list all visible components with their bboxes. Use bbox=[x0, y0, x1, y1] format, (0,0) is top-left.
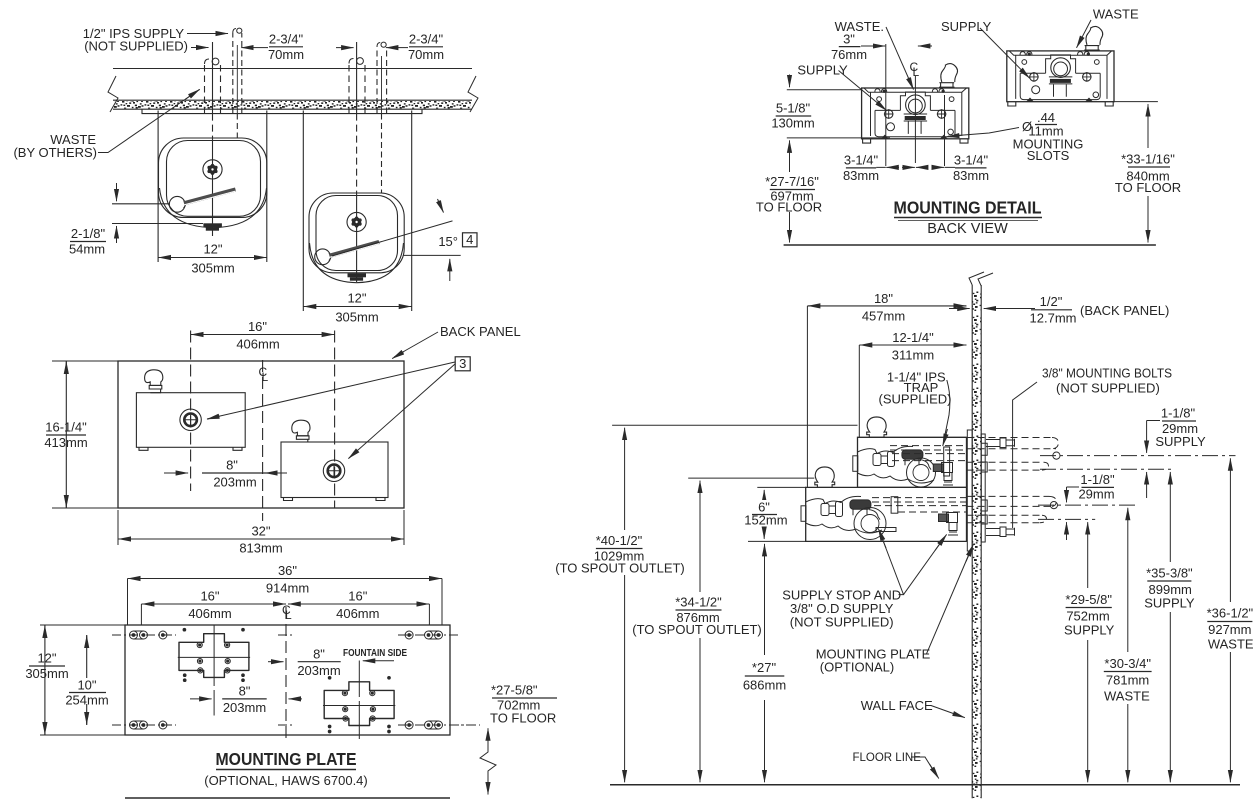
svg-text:1-1/8": 1-1/8" bbox=[1080, 472, 1115, 487]
svg-text:3": 3" bbox=[843, 32, 855, 47]
svg-text:(NOT SUPPLIED): (NOT SUPPLIED) bbox=[1056, 381, 1160, 396]
bolt slots row2 right bbox=[405, 721, 442, 729]
svg-text:*29-5/8": *29-5/8" bbox=[1065, 592, 1112, 607]
P2 vertical centerline bbox=[358, 661, 360, 740]
text 36-1/2 bbox=[1205, 604, 1254, 651]
bolt slots row1 left bbox=[130, 631, 167, 639]
dim 34-1/2 bbox=[699, 481, 701, 493]
upper unit interior bbox=[853, 446, 966, 487]
top notches bbox=[875, 89, 944, 93]
sink1 outer bowl bbox=[159, 138, 267, 218]
F1 feet bbox=[139, 447, 242, 450]
supply stop bbox=[939, 514, 949, 522]
svg-text:16": 16" bbox=[348, 589, 367, 604]
svg-text:*35-3/8": *35-3/8" bbox=[1146, 566, 1193, 581]
svg-text:L: L bbox=[262, 370, 269, 384]
floor/base line bbox=[125, 797, 450, 799]
svg-text:FLOOR LINE: FLOOR LINE bbox=[853, 752, 922, 764]
F2 centerline dashed bbox=[334, 331, 336, 509]
svg-text:L: L bbox=[285, 608, 292, 622]
dim 27-7/16 line bbox=[789, 153, 791, 173]
sink1 bubbler arm bbox=[184, 190, 236, 204]
svg-text:WASTE.: WASTE. bbox=[835, 19, 884, 34]
mounting slot leader bbox=[948, 128, 1019, 137]
svg-text:781mm: 781mm bbox=[1106, 673, 1149, 688]
text 29-5/8 bbox=[1063, 590, 1115, 637]
sink2 horizontal ref line bbox=[404, 254, 461, 256]
plate centerline bbox=[285, 607, 287, 740]
WASTE U1 leader bbox=[886, 27, 914, 90]
small holes bbox=[877, 97, 882, 102]
dim 2-1/8 bbox=[112, 204, 203, 224]
P1 mid horizontal bbox=[178, 656, 250, 658]
dim 2-3/4 no2 arrows bbox=[336, 47, 354, 49]
P1 vertical centerline bbox=[213, 625, 215, 716]
svg-text:(TO SPOUT OUTLET): (TO SPOUT OUTLET) bbox=[555, 561, 685, 576]
svg-text:76mm: 76mm bbox=[831, 47, 867, 62]
svg-text:(TO SPOUT OUTLET): (TO SPOUT OUTLET) bbox=[632, 622, 762, 637]
upper waste pipe dashed bbox=[967, 438, 1059, 449]
trap stem bbox=[908, 122, 921, 134]
sink1 drain fitting bbox=[203, 223, 222, 227]
svg-text:305mm: 305mm bbox=[335, 310, 378, 325]
lower waste centerline bbox=[1038, 504, 1135, 506]
svg-text:SUPPLY: SUPPLY bbox=[1155, 434, 1206, 449]
svg-text:12.7mm: 12.7mm bbox=[1030, 311, 1077, 326]
svg-text:54mm: 54mm bbox=[69, 242, 105, 257]
sink1 12in dim bbox=[158, 257, 267, 259]
lower waste pipe dashed bbox=[967, 496, 1057, 506]
inner panel outline bbox=[875, 110, 955, 136]
svg-text:10": 10" bbox=[77, 678, 96, 693]
text 30-3/4 bbox=[1102, 654, 1154, 702]
BACK PANEL leader bbox=[394, 332, 438, 357]
svg-text:FOUNTAIN SIDE: FOUNTAIN SIDE bbox=[343, 647, 407, 659]
dim 8 right arrows bbox=[268, 661, 284, 663]
sink2 supply pipe (dashed) bbox=[377, 47, 387, 114]
sink2 supply line below counter (dashed) bbox=[381, 114, 383, 194]
dim 3in bbox=[861, 45, 873, 47]
text 35-3/8 bbox=[1145, 564, 1195, 610]
dim 3-1/4 arrows bbox=[876, 166, 955, 168]
svg-text:83mm: 83mm bbox=[953, 168, 989, 183]
fountain F1 body bbox=[136, 393, 245, 448]
F1 bubbler head bbox=[145, 370, 163, 386]
text 6in bbox=[745, 500, 786, 525]
svg-text:813mm: 813mm bbox=[239, 541, 282, 556]
supply stop leaders bbox=[879, 530, 904, 595]
label 1/2 IPS SUPPLY leader bbox=[187, 33, 228, 35]
dim 33-1/16 bbox=[1113, 101, 1158, 103]
WASTE U2 leader bbox=[1077, 20, 1092, 48]
upper waste centerline bbox=[1040, 455, 1236, 457]
svg-text:4: 4 bbox=[466, 232, 473, 247]
counter speckle fill bbox=[114, 101, 471, 109]
svg-text:3: 3 bbox=[459, 356, 466, 371]
svg-text:(BACK PANEL): (BACK PANEL) bbox=[1080, 303, 1169, 318]
F2 bubbler head bbox=[292, 420, 310, 436]
svg-text:311mm: 311mm bbox=[892, 348, 934, 363]
svg-text:203mm: 203mm bbox=[297, 663, 340, 678]
svg-text:752mm: 752mm bbox=[1066, 609, 1109, 624]
sink1 centerline bbox=[212, 42, 214, 114]
svg-text:TO FLOOR: TO FLOOR bbox=[756, 200, 822, 215]
dim 16-1/4 left bbox=[52, 361, 118, 508]
mounting plate bar bbox=[981, 434, 985, 542]
FOUNTAIN SIDE arrow bbox=[363, 660, 394, 662]
floor line detail bbox=[784, 244, 1156, 246]
counter right break bbox=[468, 76, 478, 112]
dim 27 bbox=[764, 544, 766, 560]
svg-text:2-1/8": 2-1/8" bbox=[71, 226, 106, 241]
svg-text:152mm: 152mm bbox=[744, 513, 787, 528]
svg-text:203mm: 203mm bbox=[223, 700, 266, 715]
trap circle bbox=[906, 95, 926, 115]
label WASTE leader bbox=[98, 90, 200, 153]
svg-text:3-1/4": 3-1/4" bbox=[844, 153, 879, 168]
svg-text:1/2": 1/2" bbox=[1040, 294, 1063, 309]
P1 bolt circles bbox=[197, 642, 230, 673]
unit U2 (raised) bbox=[1007, 26, 1114, 106]
upper spout ref line bbox=[612, 424, 857, 426]
F2 feet bbox=[284, 498, 386, 501]
svg-text:*27": *27" bbox=[752, 660, 777, 675]
floor line bbox=[610, 784, 1240, 786]
dim 6 bbox=[763, 490, 765, 500]
dim 18 bbox=[807, 306, 859, 487]
27-5/8 to floor line bbox=[450, 724, 480, 726]
dim 32 bottom bbox=[118, 510, 404, 545]
svg-text:413mm: 413mm bbox=[44, 435, 87, 450]
wall face leader bbox=[931, 706, 965, 718]
sink2 bubbler bbox=[315, 249, 331, 265]
mounting slots bbox=[881, 135, 889, 139]
svg-text:406mm: 406mm bbox=[336, 606, 379, 621]
counter top edge line bbox=[113, 68, 472, 70]
dim 36-1/2 bbox=[1229, 458, 1231, 490]
sink2 bubbler arm bbox=[329, 242, 379, 256]
wall speckle fill bbox=[973, 288, 982, 798]
dim 2-3/4 no1 arrows bbox=[241, 47, 257, 49]
svg-text:36": 36" bbox=[278, 563, 297, 578]
svg-text:(BY OTHERS): (BY OTHERS) bbox=[13, 145, 97, 160]
panel centerline dashed bbox=[262, 360, 264, 521]
svg-text:406mm: 406mm bbox=[236, 337, 279, 352]
svg-text:130mm: 130mm bbox=[771, 116, 814, 131]
F1 drain rosette bbox=[180, 409, 201, 430]
dim 1-1/8 upper bbox=[1147, 420, 1160, 422]
lower supply centerline bbox=[1038, 518, 1095, 520]
fountain F2 body bbox=[281, 442, 388, 498]
back panel bar bbox=[967, 430, 972, 551]
P1 plate hole dots bbox=[183, 628, 186, 631]
bolt slots row2 left bbox=[130, 721, 167, 729]
text 34-1/2 bbox=[640, 593, 754, 636]
box 3 bbox=[455, 357, 470, 371]
svg-text:MOUNTING DETAIL: MOUNTING DETAIL bbox=[894, 198, 1042, 218]
counter front edge band bbox=[113, 100, 472, 109]
mounting bolt lower bbox=[986, 527, 1015, 537]
interior hidden pipes bbox=[890, 446, 966, 461]
sink1 inner bowl bbox=[167, 141, 261, 217]
mounting plate leader bbox=[927, 546, 973, 654]
svg-text:TO FLOOR: TO FLOOR bbox=[490, 711, 556, 726]
P2 mid horizontal bbox=[323, 705, 395, 707]
svg-text:203mm: 203mm bbox=[213, 475, 256, 490]
dim 1/2 wall bbox=[949, 308, 970, 310]
svg-text:(OPTIONAL): (OPTIONAL) bbox=[820, 660, 894, 675]
trap flange dark bbox=[904, 113, 927, 115]
dim 12-1/4 bbox=[859, 344, 966, 346]
text 27 bbox=[742, 658, 787, 691]
anchor pattern P2 cross outline bbox=[324, 682, 394, 726]
P2 bolt circles bbox=[342, 691, 375, 722]
sink1 extension lines bbox=[158, 111, 267, 263]
feet bbox=[863, 139, 968, 143]
svg-text:*27-5/8": *27-5/8" bbox=[491, 683, 538, 698]
svg-text:927mm: 927mm bbox=[1208, 622, 1251, 637]
sink2 outer bowl bbox=[309, 193, 404, 273]
svg-text:15°: 15° bbox=[438, 234, 458, 249]
svg-text:3-1/4": 3-1/4" bbox=[954, 153, 989, 168]
svg-text:WASTE: WASTE bbox=[1208, 637, 1254, 652]
lower supply pipe dashed bbox=[967, 515, 1047, 523]
svg-text:12-1/4": 12-1/4" bbox=[892, 330, 934, 345]
dim 40-1/2 bbox=[624, 428, 626, 440]
svg-text:SLOTS: SLOTS bbox=[1027, 148, 1070, 163]
svg-text:2-3/4": 2-3/4" bbox=[409, 32, 444, 47]
svg-text:3/8" MOUNTING BOLTS: 3/8" MOUNTING BOLTS bbox=[1042, 366, 1172, 381]
svg-text:SUPPLY: SUPPLY bbox=[1144, 596, 1195, 611]
dim 16 right bbox=[428, 604, 430, 625]
back panel lower edge bbox=[142, 109, 422, 113]
trap bbox=[854, 508, 886, 540]
bolt slots row1 right bbox=[405, 631, 442, 639]
wall top break bbox=[969, 272, 993, 286]
svg-text:5-1/8": 5-1/8" bbox=[776, 101, 811, 116]
svg-text:8": 8" bbox=[239, 684, 251, 699]
svg-text:914mm: 914mm bbox=[266, 581, 309, 596]
SUPPLY U2 leader bbox=[980, 28, 1030, 78]
svg-text:254mm: 254mm bbox=[65, 693, 108, 708]
svg-text:SUPPLY: SUPPLY bbox=[797, 63, 848, 78]
lower unit interior bbox=[801, 496, 966, 539]
strainer dark bbox=[902, 450, 923, 459]
15 deg top arrow bbox=[438, 199, 444, 213]
back panel rectangle bbox=[118, 361, 404, 508]
svg-text:WASTE: WASTE bbox=[1104, 689, 1150, 704]
svg-text:SUPPLY: SUPPLY bbox=[1064, 623, 1115, 638]
dim 8 left arrows bbox=[190, 698, 212, 700]
dim 36 bbox=[128, 579, 443, 626]
dim 30-3/4 bbox=[1127, 508, 1129, 545]
supply riser line bbox=[885, 44, 887, 166]
6in ext lines bbox=[748, 487, 806, 541]
15 deg bottom arrow bbox=[449, 259, 451, 281]
supply stop bbox=[933, 464, 943, 472]
svg-text:83mm: 83mm bbox=[843, 168, 879, 183]
svg-text:16": 16" bbox=[248, 319, 267, 334]
dim 1-1/8 lower bbox=[1067, 486, 1080, 488]
svg-text:2-3/4": 2-3/4" bbox=[269, 32, 304, 47]
bolt row centerlines bbox=[112, 634, 458, 636]
svg-text:457mm: 457mm bbox=[862, 309, 905, 324]
sink1 bubbler bbox=[169, 196, 185, 212]
dim 5-1/8 ref lines bbox=[787, 90, 890, 138]
svg-text:70mm: 70mm bbox=[408, 47, 444, 62]
F2 bubbler stem bbox=[296, 436, 309, 442]
anchor pattern P1 cross outline bbox=[179, 634, 249, 678]
svg-text:12": 12" bbox=[347, 291, 366, 306]
F1 centerline dashed bbox=[190, 331, 192, 492]
sink2 inner bowl bbox=[316, 196, 398, 271]
text 40-1/2 bbox=[560, 531, 680, 575]
sink1 supply line below counter (dashed) bbox=[236, 114, 238, 139]
SUPPLY U1 leader bbox=[839, 71, 887, 111]
svg-text:WALL FACE: WALL FACE bbox=[861, 698, 933, 713]
upper supply centerline bbox=[1040, 468, 1173, 470]
trap leader bbox=[943, 380, 950, 443]
dim 29-5/8 bbox=[1087, 522, 1089, 545]
svg-text:*34-1/2": *34-1/2" bbox=[675, 595, 722, 610]
pipe flanges at wall bbox=[981, 443, 987, 524]
upper bubbler bbox=[867, 417, 887, 437]
dim 8in bbox=[202, 472, 268, 474]
strainer dark bbox=[850, 500, 871, 509]
sink2 centerline bbox=[356, 42, 358, 114]
dim 12 left bbox=[40, 625, 125, 735]
sink2 extension lines bbox=[303, 111, 411, 312]
svg-text:*27-7/16": *27-7/16" bbox=[765, 174, 819, 189]
svg-text:(NOT SUPPLIED): (NOT SUPPLIED) bbox=[84, 39, 188, 54]
U1 centerline bbox=[914, 76, 916, 163]
lower unit body bbox=[806, 487, 967, 541]
bolts leader vertical bbox=[1013, 382, 1037, 528]
sink2 drain bbox=[347, 212, 366, 231]
svg-text:*33-1/16": *33-1/16" bbox=[1121, 152, 1175, 167]
svg-text:32": 32" bbox=[251, 524, 270, 539]
svg-text:70mm: 70mm bbox=[268, 47, 304, 62]
svg-text:16": 16" bbox=[200, 589, 219, 604]
sink2 drain fitting bbox=[348, 273, 367, 277]
svg-text:8": 8" bbox=[313, 647, 325, 662]
mounting bolt upper bbox=[986, 438, 1015, 448]
trap bbox=[907, 458, 936, 487]
svg-text:16-1/4": 16-1/4" bbox=[45, 420, 87, 435]
svg-text:406mm: 406mm bbox=[188, 606, 231, 621]
svg-text:*36-1/2": *36-1/2" bbox=[1207, 606, 1254, 621]
svg-text:BACK PANEL: BACK PANEL bbox=[440, 324, 521, 339]
svg-text:TO FLOOR: TO FLOOR bbox=[1115, 180, 1181, 195]
svg-text:MOUNTING PLATE: MOUNTING PLATE bbox=[216, 749, 357, 769]
F1 bubbler stem bbox=[149, 385, 162, 392]
interior hidden pipes bbox=[872, 498, 966, 512]
counter left break bbox=[108, 76, 118, 112]
F2 drain rosette bbox=[323, 460, 344, 481]
P2 plate hole dots bbox=[328, 677, 331, 680]
trap arch bbox=[900, 92, 930, 110]
waste riser bbox=[891, 497, 898, 514]
svg-text:(NOT SUPPLIED): (NOT SUPPLIED) bbox=[790, 615, 894, 630]
svg-text:18": 18" bbox=[874, 291, 893, 306]
svg-text:*30-3/4": *30-3/4" bbox=[1104, 656, 1151, 671]
svg-text:8": 8" bbox=[226, 458, 238, 473]
svg-text:29mm: 29mm bbox=[1078, 487, 1114, 502]
svg-text:686mm: 686mm bbox=[743, 678, 786, 693]
svg-text:*40-1/2": *40-1/2" bbox=[596, 533, 643, 548]
svg-text:SUPPLY: SUPPLY bbox=[941, 19, 992, 34]
sink2 waste pipe bbox=[349, 64, 365, 114]
plate rectangle bbox=[125, 625, 450, 735]
side bolts bbox=[885, 110, 893, 118]
dim 35-3/8 bbox=[1169, 472, 1171, 500]
sink1 waste pipe bbox=[205, 64, 221, 114]
svg-text:305mm: 305mm bbox=[25, 666, 68, 681]
sink1 supply pipe (dashed) bbox=[233, 33, 242, 114]
waste riser bbox=[944, 447, 950, 476]
body outer bbox=[862, 88, 969, 139]
body bevel edges bbox=[864, 88, 967, 136]
sink1 drain bbox=[203, 160, 222, 179]
dim 10 bbox=[86, 635, 88, 725]
floor line leader bbox=[911, 757, 937, 777]
right slot extension line bbox=[944, 95, 946, 166]
sink2 15 deg line bbox=[332, 221, 453, 256]
box3 leaders bbox=[207, 362, 455, 419]
unit U1 bbox=[862, 64, 969, 144]
svg-text:12": 12" bbox=[203, 242, 222, 257]
svg-text:305mm: 305mm bbox=[191, 261, 234, 276]
lower bubbler bbox=[815, 467, 835, 488]
upper unit body bbox=[858, 437, 967, 487]
bubbler bbox=[939, 64, 957, 88]
svg-text:WASTE: WASTE bbox=[1093, 7, 1139, 22]
dim 16 left bbox=[140, 604, 142, 625]
svg-text:(SUPPLIED): (SUPPLIED) bbox=[879, 392, 952, 407]
sink2 front lip curve bbox=[310, 243, 404, 283]
sink2 12in dim bbox=[303, 306, 411, 308]
text 10 bbox=[67, 678, 107, 704]
wall face lines bbox=[972, 285, 981, 798]
upper supply pipe dashed bbox=[967, 462, 1049, 470]
svg-text:1-1/8": 1-1/8" bbox=[1161, 406, 1196, 421]
sink1 front lip curve bbox=[160, 188, 267, 228]
svg-text:(OPTIONAL, HAWS 6700.4): (OPTIONAL, HAWS 6700.4) bbox=[204, 773, 368, 788]
dim 16in top bbox=[191, 334, 335, 336]
svg-text:L: L bbox=[913, 65, 920, 79]
svg-text:12": 12" bbox=[37, 651, 56, 666]
svg-text:BACK VIEW: BACK VIEW bbox=[927, 221, 1008, 237]
lower spout ref line bbox=[688, 477, 814, 479]
